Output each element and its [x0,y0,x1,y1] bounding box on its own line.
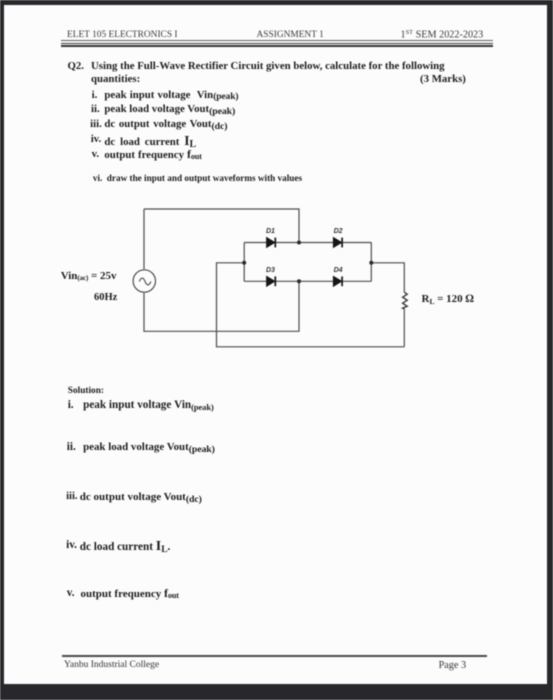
svg-text:D1: D1 [266,228,275,235]
diode D1 [267,238,276,248]
left black strip [0,0,4,700]
svg-text:D3: D3 [266,267,275,274]
wire left tap to load bottom rail [217,263,405,347]
wire source bottom lead to bridge bottom-rail tap [144,281,299,331]
junction dot left tap [242,261,246,265]
label RL = 120 ohm [422,293,474,306]
solution section [68,386,104,397]
wire source top lead [143,209,145,269]
diode D4 [333,276,342,286]
AC source V1 circle [133,270,155,292]
wire top: source top to bridge top-rail tap [144,209,299,243]
header row [67,30,178,41]
footer [62,655,487,657]
junction dot right tap [369,261,373,265]
wire right tap to resistor top [371,263,404,292]
question block [68,60,85,72]
wire bridge top rail [244,242,371,244]
diode D2 [333,238,342,248]
wire resistor bottom lead [403,309,405,347]
svg-text:D4: D4 [334,267,343,274]
right black strip [547,0,553,700]
bottom black bar [0,684,553,700]
junction dot bottom-rail tap [297,279,301,283]
svg-text:D2: D2 [334,228,343,235]
label 60Hz [94,292,117,304]
AC source sine symbol [139,278,151,285]
resistor RL zigzag [403,292,408,309]
diode D3 [267,276,276,286]
wire bridge right vertical [370,243,372,282]
label Vin(ac) = 25v [61,270,117,283]
wire bridge bottom rail [244,280,371,282]
wire bridge left vertical [243,243,245,282]
header double rule [61,43,493,44]
junction dot top-rail tap [297,241,301,245]
header thin rule [61,40,493,41]
top black bar [0,0,553,5]
